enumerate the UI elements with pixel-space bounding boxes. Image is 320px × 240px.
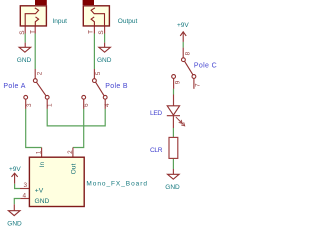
svg-text:T: T: [30, 30, 37, 34]
svg-text:GND: GND: [7, 221, 22, 228]
svg-text:8: 8: [184, 51, 191, 55]
svg-text:6: 6: [83, 103, 90, 107]
svg-text:In: In: [39, 162, 46, 168]
svg-text:T: T: [87, 30, 94, 34]
svg-text:2: 2: [67, 150, 74, 154]
svg-text:7: 7: [194, 83, 201, 87]
svg-text:S: S: [19, 31, 26, 35]
svg-text:Out: Out: [70, 163, 77, 174]
svg-text:2: 2: [37, 71, 44, 75]
svg-text:Pole A: Pole A: [3, 83, 25, 90]
svg-text:1: 1: [36, 150, 43, 154]
svg-text:Pole B: Pole B: [105, 83, 128, 90]
svg-text:S: S: [98, 30, 105, 34]
svg-text:3: 3: [26, 103, 33, 107]
svg-text:+9V: +9V: [177, 22, 189, 29]
svg-text:1: 1: [47, 103, 54, 107]
svg-text:9: 9: [175, 80, 182, 84]
svg-text:GND: GND: [35, 198, 50, 205]
svg-text:GND: GND: [97, 57, 112, 64]
svg-text:Input: Input: [53, 18, 68, 25]
svg-text:GND: GND: [17, 57, 32, 64]
svg-text:GND: GND: [165, 184, 180, 191]
svg-text:4: 4: [104, 103, 111, 107]
svg-text:Pole C: Pole C: [194, 63, 217, 70]
svg-text:3: 3: [24, 182, 28, 189]
svg-text:LED: LED: [150, 110, 162, 117]
svg-text:+9V: +9V: [9, 166, 21, 173]
svg-text:5: 5: [95, 71, 102, 75]
svg-text:CLR: CLR: [150, 147, 163, 154]
svg-text:4: 4: [23, 192, 27, 199]
svg-text:Output: Output: [118, 18, 138, 25]
svg-text:Mono_FX_Board: Mono_FX_Board: [86, 180, 147, 187]
svg-text:+V: +V: [35, 188, 44, 195]
